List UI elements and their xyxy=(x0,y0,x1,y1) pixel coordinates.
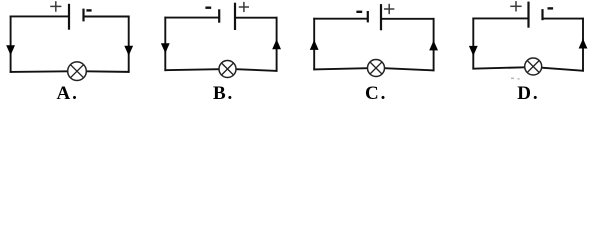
wire C right side xyxy=(433,18,435,71)
label + (C) xyxy=(384,4,394,14)
current arrow C right (up) xyxy=(429,40,438,50)
wire A left side xyxy=(10,16,12,73)
wire C top-right segment xyxy=(381,18,435,20)
label - (C) xyxy=(356,11,362,13)
wire D top-right segment xyxy=(542,18,584,20)
label - (B) xyxy=(205,6,211,8)
wire D left side xyxy=(472,18,474,70)
wire A top-right segment xyxy=(83,16,129,18)
svg-text:A.: A. xyxy=(56,83,78,104)
battery cell A: long plate (+) xyxy=(68,4,70,30)
battery cell D: long plate (+) xyxy=(527,2,529,28)
lamp C xyxy=(368,60,385,77)
battery cell D: short plate (-) xyxy=(541,9,543,20)
label - (A) xyxy=(86,9,91,11)
label + (B) xyxy=(239,2,249,12)
current arrow B left (down) xyxy=(161,43,170,53)
wire B top-left segment xyxy=(164,17,219,19)
wire B bottom-right segment xyxy=(236,69,278,71)
wire C top-left segment xyxy=(313,18,367,20)
wire D bottom-left segment xyxy=(472,67,524,68)
wire A right side xyxy=(128,16,130,73)
wire C bottom-left segment xyxy=(313,68,367,69)
lamp D xyxy=(525,58,542,75)
battery cell C: long plate (+) xyxy=(380,4,382,30)
wire B top-right segment xyxy=(235,17,278,19)
svg-text:B.: B. xyxy=(213,83,234,104)
svg-text:C.: C. xyxy=(365,83,387,104)
current arrow D right (up) xyxy=(579,39,588,49)
wire D right side xyxy=(582,18,584,72)
svg-text:D.: D. xyxy=(517,83,539,104)
stray mark under D bottom wire xyxy=(511,78,520,80)
wire D top-left segment xyxy=(472,17,528,19)
battery cell B: short plate (-) xyxy=(218,9,220,22)
wire B left side xyxy=(164,17,166,71)
battery cell C: short plate (-) xyxy=(367,11,369,22)
lamp B xyxy=(219,61,236,78)
wire A bottom-left segment xyxy=(10,70,68,73)
wire A top-left segment xyxy=(10,15,69,17)
battery cell A: short plate (-) xyxy=(82,9,84,22)
battery cell B: long plate (+) xyxy=(234,3,236,30)
current arrow D left (down) xyxy=(469,46,478,56)
wire A bottom-right segment xyxy=(86,70,129,73)
current arrow B right (up) xyxy=(272,39,281,49)
current arrow A right (down) xyxy=(124,46,133,56)
current arrow A left (down) xyxy=(6,45,15,55)
current arrow C left (up) xyxy=(310,40,319,50)
label + (D) xyxy=(510,1,521,11)
wire B right side xyxy=(276,17,278,72)
wire D bottom-right segment xyxy=(542,68,584,71)
label + (A) xyxy=(50,1,61,12)
label - (D) xyxy=(548,7,554,9)
wire C left side xyxy=(313,18,315,71)
wire B bottom-left segment xyxy=(164,69,219,70)
lamp A xyxy=(68,62,87,81)
wire C bottom-right segment xyxy=(384,68,434,70)
